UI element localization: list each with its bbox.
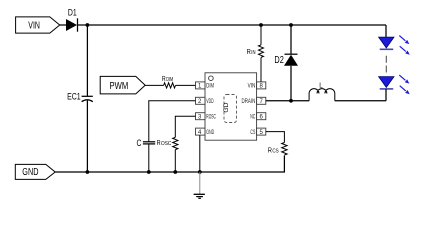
node junction bottom rail at EC1 bbox=[86, 170, 90, 174]
svg-text:DIM: DIM bbox=[166, 77, 173, 83]
resistor RDIM bbox=[162, 74, 176, 88]
wire top rail bbox=[78, 24, 387, 26]
svg-text:DIM: DIM bbox=[206, 84, 214, 90]
wire pin5 to Rcs bbox=[266, 132, 285, 143]
wire C to rail bbox=[148, 144, 150, 172]
LED D3 (top) bbox=[379, 37, 394, 49]
wire dashed LED string continuation bbox=[385, 56, 387, 73]
node GND input tag bbox=[15, 164, 55, 179]
svg-text:VIN: VIN bbox=[248, 84, 256, 90]
svg-text:ROSC: ROSC bbox=[206, 114, 216, 120]
LED1 emission arrows bbox=[399, 36, 409, 55]
wire D2 cathode up bbox=[290, 25, 292, 54]
svg-text:CS: CS bbox=[250, 130, 255, 136]
svg-text:GD: GD bbox=[224, 102, 230, 113]
inductor L bbox=[309, 81, 335, 101]
node junction top rail at D2 bbox=[289, 23, 293, 27]
wire EC1 branch upper bbox=[86, 25, 88, 96]
wire RIN branch upper bbox=[260, 25, 262, 45]
wire Rosc to rail bbox=[174, 150, 176, 172]
capacitor C bbox=[137, 138, 156, 148]
resistor Rcs bbox=[268, 143, 287, 156]
svg-text:CS: CS bbox=[272, 149, 279, 155]
pin 7 box bbox=[257, 97, 266, 104]
svg-text:OSC: OSC bbox=[161, 141, 172, 147]
op-amp U1 IC body bbox=[205, 73, 257, 140]
svg-text:GND: GND bbox=[22, 167, 38, 178]
svg-text:EC1: EC1 bbox=[67, 92, 81, 102]
svg-text:NC: NC bbox=[250, 114, 255, 120]
svg-text:D1: D1 bbox=[68, 8, 77, 19]
svg-text:PWM: PWM bbox=[110, 81, 129, 92]
node junction bottom rail at C bbox=[147, 170, 151, 174]
wire top rail drop to LED1 bbox=[385, 25, 387, 37]
LED2 emission arrows bbox=[399, 75, 409, 94]
pin 6 box bbox=[257, 113, 266, 120]
resistor RIN bbox=[247, 45, 264, 57]
svg-text:D2: D2 bbox=[274, 55, 284, 66]
wire LED2 cathode down bbox=[385, 89, 387, 101]
svg-text:R: R bbox=[162, 74, 166, 83]
svg-text:IN: IN bbox=[251, 50, 255, 56]
node PWM input tag bbox=[100, 76, 145, 94]
pin 3 box bbox=[196, 113, 206, 120]
node junction top rail at EC1 bbox=[86, 23, 90, 27]
node junction bottom rail at GND pin bbox=[198, 170, 202, 174]
wire EC1 branch lower bbox=[86, 100, 88, 172]
internal dashed box bbox=[224, 95, 237, 123]
wire RDIM to pin1 bbox=[176, 84, 196, 86]
wire VIN to D1 bbox=[60, 24, 66, 26]
node drain junction bbox=[289, 99, 293, 103]
node junction top rail at RIN bbox=[259, 23, 263, 27]
wire drain to inductor bbox=[291, 100, 309, 102]
ground bbox=[194, 172, 205, 198]
svg-text:C: C bbox=[137, 138, 142, 148]
capacitor EC1 bbox=[67, 92, 93, 102]
wire pin4 to rail bbox=[199, 135, 201, 172]
pin 5 box bbox=[257, 128, 266, 135]
pin 4 box bbox=[196, 128, 206, 135]
pin 1 indicator circle bbox=[209, 76, 214, 81]
LED D4 (bottom) bbox=[379, 77, 394, 89]
svg-text:L: L bbox=[319, 81, 323, 90]
wire pin3 to Rosc bbox=[175, 116, 195, 137]
node junction bottom rail at Rosc bbox=[173, 170, 177, 174]
node VIN input tag bbox=[16, 17, 60, 33]
svg-text:DRAIN: DRAIN bbox=[242, 99, 256, 105]
svg-text:GND: GND bbox=[206, 130, 214, 136]
svg-text:VDD: VDD bbox=[206, 99, 214, 105]
diode D2 bbox=[274, 54, 298, 66]
svg-text:VIN: VIN bbox=[28, 21, 40, 32]
wire inductor to LED string bbox=[335, 100, 386, 102]
pin 1 box bbox=[196, 82, 206, 89]
wire D2 anode down bbox=[290, 66, 292, 101]
resistor Rosc bbox=[157, 137, 178, 149]
diode D1 bbox=[66, 8, 78, 32]
wire pin7 to drain node bbox=[266, 100, 291, 102]
pin 2 box bbox=[196, 97, 206, 104]
wire PWM to RDIM bbox=[145, 84, 163, 86]
wire bottom rail bbox=[55, 156, 284, 173]
wire pin2 to C bbox=[149, 101, 196, 142]
wire RIN to pin8 bbox=[260, 58, 262, 82]
pin 8 box bbox=[257, 82, 266, 89]
